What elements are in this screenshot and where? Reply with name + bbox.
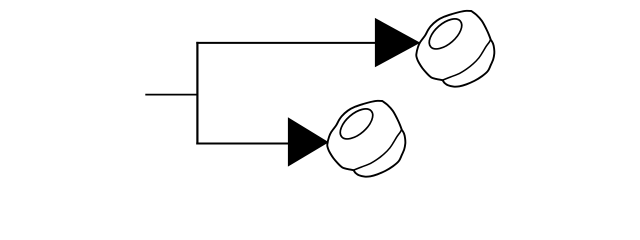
wire: vertical branch bbox=[196, 42, 198, 145]
wire: left stub bbox=[145, 94, 197, 96]
wire: top horizontal bbox=[196, 42, 376, 44]
arrow to lower grommet bbox=[288, 117, 329, 166]
grommet (upper) bbox=[416, 11, 494, 87]
arrow to upper grommet bbox=[375, 18, 420, 67]
wire: bottom horizontal bbox=[196, 143, 289, 145]
grommet (lower) bbox=[327, 101, 405, 177]
